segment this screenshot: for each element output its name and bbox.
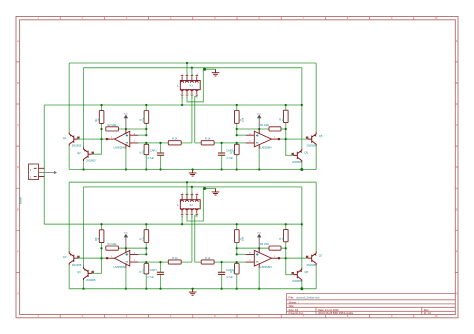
junction V-/bottom R (block 2) bbox=[258, 288, 260, 290]
svg-text:R8 100k: R8 100k bbox=[260, 243, 270, 246]
svg-text:100: 100 bbox=[232, 150, 236, 155]
wire Q1 collector down (block 1) bbox=[68, 146, 70, 170]
junction Rcol/feedback (block 2) bbox=[285, 247, 287, 249]
relay K1 body bbox=[180, 81, 200, 90]
svg-text:G: G bbox=[17, 292, 19, 296]
wire -in to mid (block 2) bbox=[138, 261, 146, 263]
wire feedback to divider (block 2) bbox=[118, 247, 146, 249]
wire relay pin to ground net (block 2) bbox=[187, 189, 203, 222]
junction V+ pin/feedback R (block 1) bbox=[258, 128, 260, 130]
wire -in node to Rb (block 1) bbox=[145, 143, 147, 144]
svg-text:5: 5 bbox=[196, 97, 197, 99]
wire Q2 collector down (block 1) bbox=[83, 161, 85, 170]
wire W1 top (block 2) bbox=[69, 181, 316, 183]
wire mid right (block 2) bbox=[195, 261, 237, 263]
wire W2 to relay pin (block 2) bbox=[191, 187, 193, 196]
junction C4/mid (block 2) bbox=[221, 261, 223, 263]
svg-text:2: 2 bbox=[134, 141, 136, 143]
svg-text:4: 4 bbox=[196, 74, 197, 76]
ground symbol mid (block 1) bbox=[189, 170, 197, 177]
transistor QC3 (block 2) bbox=[308, 251, 316, 265]
svg-text:LM358N: LM358N bbox=[260, 265, 271, 269]
connector J1 bbox=[29, 164, 39, 180]
svg-text:Sheet:: Sheet: bbox=[289, 300, 298, 304]
junction C2/bottom (block 1) bbox=[221, 168, 223, 170]
op-amp U1A (block 1) bbox=[115, 131, 130, 147]
resistor right col (block 2) bbox=[284, 229, 289, 241]
svg-text:5: 5 bbox=[196, 217, 197, 219]
wire W1 to relay pin (block 1) bbox=[186, 63, 188, 76]
svg-text:1: 1 bbox=[111, 256, 113, 258]
wire R3a down to Q base (block 2) bbox=[92, 243, 102, 274]
op-amp U1B (block 1) bbox=[254, 131, 271, 147]
svg-text:10k: 10k bbox=[141, 236, 145, 241]
wire feedback right b (block 1) bbox=[281, 128, 286, 130]
wire Rcol down to QC2 base (block 1) bbox=[286, 123, 294, 156]
wire mid right (block 1) bbox=[195, 142, 237, 144]
wire Rb to bottom (block 2) bbox=[145, 274, 147, 289]
svg-text:VCC: VCC bbox=[124, 113, 129, 115]
junction W1/relay (block 2) bbox=[186, 181, 188, 183]
svg-text:A: A bbox=[456, 39, 458, 43]
wire R1a down to Q base (block 1) bbox=[92, 123, 102, 154]
svg-text:2N2905: 2N2905 bbox=[72, 144, 82, 148]
svg-text:2N2905: 2N2905 bbox=[307, 144, 317, 148]
op-amp right input pins (block 2) bbox=[246, 254, 255, 262]
svg-text:Q8: Q8 bbox=[304, 270, 308, 274]
wire C2 to bottom (block 1) bbox=[221, 155, 223, 169]
junction Rcol/feedback (block 1) bbox=[285, 128, 287, 130]
transistor Q2 (block 1) bbox=[84, 147, 92, 161]
wire QC1 collector down (block 1) bbox=[315, 146, 317, 170]
wire block bottom rail (block 1) bbox=[69, 169, 316, 171]
svg-text:10: 10 bbox=[434, 16, 438, 20]
junction Rcol/output (block 2) bbox=[285, 257, 287, 259]
wire C1 to bottom (block 1) bbox=[160, 155, 162, 169]
svg-text:10k: 10k bbox=[241, 117, 245, 122]
op-amp output pin right (block 1) bbox=[272, 138, 281, 140]
svg-text:K1: K1 bbox=[190, 84, 194, 88]
svg-text:1: 1 bbox=[111, 137, 113, 139]
svg-text:Q2: Q2 bbox=[77, 151, 81, 155]
wire relay pin to mid wire A (block 1) bbox=[191, 95, 193, 143]
junction col/feedback (block 2) bbox=[100, 247, 102, 249]
svg-text:10k: 10k bbox=[141, 117, 145, 122]
wire output to Q3 base (block 2) bbox=[78, 257, 106, 259]
junction V+ pin/feedback (block 2) bbox=[125, 247, 127, 249]
junction col/output (block 2) bbox=[100, 257, 102, 259]
wire rail to divider R (block 2) bbox=[236, 224, 238, 230]
svg-text:Q5: Q5 bbox=[319, 134, 323, 138]
power port VCC right (block 2) bbox=[258, 235, 261, 249]
junction C1/bottom (block 1) bbox=[159, 168, 161, 170]
svg-text:R 1k: R 1k bbox=[205, 137, 211, 141]
junction V-/bottom (block 2) bbox=[125, 288, 127, 290]
junction divider/feedback (block 1) bbox=[145, 128, 147, 130]
junction rail/Rcol (block 1) bbox=[285, 104, 287, 106]
junction C3/bottom (block 2) bbox=[159, 288, 161, 290]
svg-text:100: 100 bbox=[141, 150, 145, 155]
wire W2 right drop through rail (block 2) bbox=[301, 187, 303, 268]
junction V+ pin/feedback (block 1) bbox=[125, 128, 127, 130]
ground symbol near relay (block 1) bbox=[212, 69, 220, 76]
relay K2 body bbox=[180, 200, 200, 209]
junction QC2/bottom (block 1) bbox=[300, 168, 303, 171]
resistor divider top right (block 2) bbox=[235, 230, 240, 243]
svg-text:Q3: Q3 bbox=[63, 255, 67, 259]
series resistor right (block 2) bbox=[201, 260, 214, 264]
capacitor C2 (block 1) bbox=[218, 153, 225, 155]
feedback resistor bbox=[269, 127, 281, 131]
junction -in/mid R (block 2) bbox=[236, 261, 238, 263]
series resistor right (block 1) bbox=[201, 141, 214, 145]
transistor Q1 (block 1) bbox=[69, 132, 77, 146]
wire Q4 collector down (block 2) bbox=[83, 280, 85, 289]
ground symbol near relay (block 2) bbox=[212, 189, 220, 196]
svg-text:R6 100k: R6 100k bbox=[108, 243, 118, 246]
op-amp U1C (block 2) bbox=[115, 250, 130, 266]
wire QC2 collector down (block 1) bbox=[301, 162, 303, 169]
junction rail/Rcol (block 2) bbox=[285, 223, 287, 225]
junction Q4/bottom (block 2) bbox=[82, 288, 84, 290]
wire output to QC base (block 1) bbox=[280, 138, 308, 140]
wire to ground symbol (block 2) bbox=[203, 188, 215, 190]
relay K2 coil bumps bbox=[181, 200, 199, 209]
wire feedback right a (block 2) bbox=[237, 247, 269, 249]
junction rail/W2 (block 1) bbox=[301, 104, 303, 106]
resistor divider top left (block 1) bbox=[144, 111, 149, 124]
wire -in to mid R (block 2) bbox=[237, 261, 246, 263]
wire Q3 collector down (block 2) bbox=[68, 265, 70, 289]
wire -in node to Rb R (block 2) bbox=[236, 262, 238, 263]
junction rail/divider R (block 1) bbox=[236, 104, 238, 106]
junction divider/feedback R (block 1) bbox=[236, 128, 238, 130]
wire mid to C1 (block 1) bbox=[160, 143, 162, 153]
svg-text:VCC: VCC bbox=[124, 233, 129, 235]
wire Rcol down to QC2 base (block 2) bbox=[286, 242, 294, 275]
wire divider mid (block 2) bbox=[145, 243, 147, 255]
resistor divider bottom right (block 1) bbox=[235, 144, 240, 154]
svg-text:B: B bbox=[17, 81, 19, 85]
svg-text:C: C bbox=[17, 123, 19, 127]
wire Rb to bottom R (block 2) bbox=[236, 274, 238, 289]
wire W1 to relay pin (block 2) bbox=[186, 182, 188, 195]
junction rail/W2 (block 2) bbox=[301, 223, 303, 225]
feedback resistor bbox=[106, 127, 119, 131]
capacitor C4 (block 2) bbox=[218, 272, 225, 274]
junction Q2/bottom (block 1) bbox=[82, 168, 84, 170]
wire rail to R1a (block 1) bbox=[101, 105, 103, 111]
svg-text:2: 2 bbox=[249, 260, 251, 262]
svg-text:4.7uF: 4.7uF bbox=[226, 156, 233, 160]
junction V+ pin/feedback R (block 2) bbox=[258, 247, 260, 249]
wire V+ left vertical bbox=[43, 105, 45, 224]
svg-text:F: F bbox=[456, 249, 458, 253]
junction col/output (block 1) bbox=[100, 138, 102, 140]
series resistor left (block 1) bbox=[168, 141, 181, 145]
svg-text:2N2905: 2N2905 bbox=[86, 159, 96, 163]
wire -in to mid (block 1) bbox=[138, 142, 146, 144]
junction divider/feedback (block 2) bbox=[145, 247, 147, 249]
wire W2 top (block 1) bbox=[84, 67, 302, 69]
wire block bottom rail (block 2) bbox=[69, 288, 316, 290]
wire W1 right drop to QC (block 2) bbox=[315, 182, 317, 251]
svg-text:Id: 1/1: Id: 1/1 bbox=[424, 311, 432, 315]
svg-text:4.7uF: 4.7uF bbox=[147, 275, 154, 279]
wire rail to R3a (block 2) bbox=[101, 224, 103, 230]
wire V- to bottom rail (block 2) bbox=[125, 268, 127, 289]
junction Rb/bottom (block 1) bbox=[145, 168, 147, 170]
wire to ground symbol (block 1) bbox=[203, 68, 215, 70]
svg-text:L: L bbox=[177, 84, 179, 88]
svg-text:R 1k: R 1k bbox=[172, 256, 178, 260]
junction C2/mid (block 1) bbox=[221, 142, 223, 144]
capacitor C3 (block 2) bbox=[157, 272, 164, 274]
svg-text:R 1k: R 1k bbox=[205, 256, 211, 260]
op-amp left input pins (block 2) bbox=[130, 254, 139, 262]
wire Rb to bottom R (block 1) bbox=[236, 155, 238, 170]
svg-text:2N2905: 2N2905 bbox=[86, 278, 96, 282]
wire W1 left drop to Q3 (block 2) bbox=[68, 182, 70, 251]
wire W1 right drop to QC (block 1) bbox=[315, 63, 317, 132]
wire relay pin to rail (block 2) bbox=[181, 214, 183, 224]
svg-text:2N2905: 2N2905 bbox=[292, 279, 302, 283]
wire output to QC base (block 2) bbox=[280, 257, 308, 259]
wire W2 right drop through rail (block 1) bbox=[301, 68, 303, 149]
relay K1 coil bumps bbox=[181, 81, 199, 90]
svg-text:E: E bbox=[456, 207, 458, 211]
wire QC4 collector down (block 2) bbox=[301, 281, 303, 288]
resistor divider bottom left (block 1) bbox=[144, 144, 149, 154]
wire relay pin to rail (block 1) bbox=[181, 95, 183, 105]
wire mid left (block 1) bbox=[146, 142, 192, 144]
wire W1 top (block 1) bbox=[69, 62, 316, 64]
power port VCC left (block 2) bbox=[124, 235, 127, 249]
svg-text:D: D bbox=[456, 165, 458, 169]
junction ground net (block 1) bbox=[203, 68, 206, 71]
svg-text:File:: File: bbox=[289, 296, 295, 300]
wire W2 left drop to Q4 (block 2) bbox=[83, 187, 85, 267]
wire rail to Rcol (block 1) bbox=[285, 105, 287, 110]
connector J1 pins bbox=[39, 168, 45, 176]
svg-text:limiter: limiter bbox=[19, 197, 23, 204]
svg-text:2N2905: 2N2905 bbox=[307, 263, 317, 267]
wire mid to C4 (block 2) bbox=[221, 262, 223, 272]
svg-text:C: C bbox=[456, 123, 458, 127]
svg-text:E: E bbox=[17, 207, 19, 211]
svg-text:A: A bbox=[17, 39, 19, 43]
op-amp output pin left (block 2) bbox=[106, 257, 115, 259]
wire -in to mid R (block 1) bbox=[237, 142, 246, 144]
svg-text:R 1k: R 1k bbox=[172, 137, 178, 141]
junction -in/mid R (block 1) bbox=[236, 142, 238, 144]
wire mid to C3 (block 2) bbox=[160, 262, 162, 272]
wire W1 left drop to Q1 (block 1) bbox=[68, 63, 70, 132]
resistor right col (block 1) bbox=[284, 110, 289, 122]
wire relay pin to mid wire A (block 2) bbox=[191, 214, 193, 262]
feedback resistor bbox=[106, 246, 119, 250]
capacitor C1 (block 1) bbox=[157, 153, 164, 155]
svg-text:4.7uF: 4.7uF bbox=[226, 275, 233, 279]
junction C4/bottom (block 2) bbox=[221, 288, 223, 290]
svg-text:4: 4 bbox=[196, 193, 197, 195]
junction rail/divider (block 1) bbox=[145, 104, 147, 106]
wire V+ rail (block 1) bbox=[44, 104, 302, 106]
resistor divider bottom right (block 2) bbox=[235, 264, 240, 274]
svg-text:CAP3: CAP3 bbox=[150, 268, 158, 272]
wire rail to divider R (block 1) bbox=[236, 105, 238, 111]
wire divider mid R (block 2) bbox=[236, 243, 238, 255]
wire feedback right b (block 2) bbox=[281, 247, 286, 249]
svg-text:2: 2 bbox=[134, 260, 136, 262]
svg-text:R4 100k: R4 100k bbox=[260, 124, 270, 127]
junction Rb/bottom R (block 2) bbox=[236, 288, 238, 290]
svg-text:Q7: Q7 bbox=[319, 253, 323, 257]
wire divider mid (block 1) bbox=[145, 123, 147, 135]
junction W2/relay (block 1) bbox=[191, 67, 193, 69]
svg-text:F: F bbox=[17, 249, 19, 253]
power port VCC right (block 1) bbox=[258, 115, 261, 129]
wire -in node to Rb (block 2) bbox=[145, 262, 147, 263]
junction C3/mid (block 2) bbox=[159, 261, 161, 263]
junction C1/mid (block 1) bbox=[159, 142, 161, 144]
junction QC4/bottom (block 2) bbox=[300, 287, 303, 290]
wire W2 to relay pin (block 1) bbox=[191, 68, 193, 77]
op-amp U1D (block 2) bbox=[254, 250, 271, 266]
svg-text:KiCad E.D.A.: KiCad E.D.A. bbox=[289, 311, 305, 315]
junction col/feedback (block 1) bbox=[100, 128, 102, 130]
series resistor left (block 2) bbox=[168, 260, 181, 264]
svg-text:2N2905: 2N2905 bbox=[72, 263, 82, 267]
junction W2/relay (block 2) bbox=[191, 186, 193, 188]
feedback resistor bbox=[269, 246, 281, 250]
relay K2 pins bbox=[181, 195, 198, 215]
junction V-/bottom R (block 1) bbox=[258, 168, 260, 170]
svg-text:100: 100 bbox=[141, 269, 145, 274]
svg-text:100: 100 bbox=[232, 269, 236, 274]
wire feedback to divider (block 1) bbox=[118, 128, 146, 130]
junction rail/R3a (block 2) bbox=[100, 223, 102, 225]
svg-text:10: 10 bbox=[434, 314, 438, 318]
wire output to Q1 base (block 1) bbox=[78, 138, 106, 140]
relay K1 pins bbox=[181, 76, 198, 96]
resistor R3a (block 2) bbox=[99, 230, 104, 243]
wire QC3 collector down (block 2) bbox=[315, 265, 317, 289]
svg-text:Q6: Q6 bbox=[304, 151, 308, 155]
junction -in/mid wire (block 1) bbox=[145, 142, 147, 144]
junction divider tap (block 1) bbox=[145, 134, 147, 136]
svg-text:2N2905: 2N2905 bbox=[292, 160, 302, 164]
ground symbol mid (block 2) bbox=[189, 289, 197, 296]
svg-text:Q1: Q1 bbox=[63, 136, 67, 140]
wire V- to bottom rail R (block 1) bbox=[258, 149, 260, 170]
svg-text:R2 100k: R2 100k bbox=[108, 124, 118, 127]
junction divider tap R (block 2) bbox=[236, 253, 238, 255]
transistor Q4 (block 2) bbox=[84, 267, 92, 281]
wire mid to C2 (block 1) bbox=[221, 143, 223, 153]
wire rail to divider (block 2) bbox=[145, 224, 147, 230]
svg-text:current_limiter.sch: current_limiter.sch bbox=[296, 296, 320, 300]
wire -in node to Rb R (block 1) bbox=[236, 143, 238, 144]
wire relay pin to ground net (block 1) bbox=[187, 69, 203, 102]
junction Rb/bottom R (block 1) bbox=[236, 168, 238, 170]
op-amp output pin left (block 1) bbox=[106, 138, 115, 140]
junction Rcol/output (block 1) bbox=[285, 138, 287, 140]
svg-text:1: 1 bbox=[274, 256, 276, 258]
wire relay pin to mid wire B (block 1) bbox=[195, 95, 197, 143]
resistor R1a (block 1) bbox=[99, 111, 104, 124]
wire rail to divider (block 1) bbox=[145, 105, 147, 111]
power port VCC left (block 1) bbox=[124, 115, 127, 129]
resistor divider top left (block 2) bbox=[144, 230, 149, 243]
transistor QC4 (block 2) bbox=[294, 268, 302, 282]
junction ground net (block 2) bbox=[203, 187, 206, 190]
junction rail/R1a (block 1) bbox=[100, 104, 102, 106]
svg-text:L: L bbox=[177, 203, 179, 207]
wire +in to divider R (block 1) bbox=[237, 134, 246, 136]
svg-text:CAP1: CAP1 bbox=[150, 149, 158, 153]
junction divider tap (block 2) bbox=[145, 253, 147, 255]
transistor Q3 (block 2) bbox=[69, 251, 77, 265]
svg-text:LM358N: LM358N bbox=[260, 146, 271, 150]
wire +in to divider (block 2) bbox=[138, 253, 146, 255]
svg-text:D: D bbox=[17, 165, 19, 169]
svg-text:2: 2 bbox=[249, 141, 251, 143]
svg-text:4.7uF: 4.7uF bbox=[147, 156, 154, 160]
junction relay/rail (block 1) bbox=[181, 104, 183, 106]
svg-text:1: 1 bbox=[274, 137, 276, 139]
transistor QC2 (block 1) bbox=[294, 149, 302, 163]
junction relay/rail (block 2) bbox=[181, 223, 183, 225]
wire divider mid R (block 1) bbox=[236, 123, 238, 135]
junction rail/divider R (block 2) bbox=[236, 223, 238, 225]
svg-text:K2: K2 bbox=[190, 203, 194, 207]
svg-text:G: G bbox=[456, 292, 458, 296]
wire Rb to bottom (block 1) bbox=[145, 155, 147, 170]
svg-text:1: 1 bbox=[182, 193, 183, 195]
svg-text:10k: 10k bbox=[241, 236, 245, 241]
svg-text:VCC: VCC bbox=[257, 113, 262, 115]
junction divider tap R (block 1) bbox=[236, 134, 238, 136]
wire mid left (block 2) bbox=[146, 261, 192, 263]
svg-text:B: B bbox=[456, 81, 458, 85]
svg-text:LM358N: LM358N bbox=[114, 265, 125, 269]
junction V-/bottom (block 1) bbox=[125, 168, 127, 170]
svg-text:VCC: VCC bbox=[257, 233, 262, 235]
wire V+ rail (block 2) bbox=[44, 223, 302, 225]
svg-text:(2010-08-28 BZR 2684)-stable: (2010-08-28 BZR 2684)-stable bbox=[318, 311, 354, 315]
wire V- to bottom rail (block 1) bbox=[125, 149, 127, 170]
wire C3 to bottom (block 2) bbox=[160, 274, 162, 288]
wire rail to Rcol (block 2) bbox=[285, 224, 287, 229]
resistor divider top right (block 1) bbox=[235, 111, 240, 124]
wire +in to divider R (block 2) bbox=[237, 253, 246, 255]
wire C4 to bottom (block 2) bbox=[221, 274, 223, 288]
wire relay pin to mid wire B (block 2) bbox=[195, 214, 197, 262]
svg-text:Q4: Q4 bbox=[77, 270, 81, 274]
transistor QC1 (block 1) bbox=[308, 132, 316, 146]
op-amp output pin right (block 2) bbox=[272, 257, 281, 259]
svg-text:1: 1 bbox=[182, 74, 183, 76]
junction -in/mid wire (block 2) bbox=[145, 261, 147, 263]
wire feedback right a (block 1) bbox=[237, 128, 269, 130]
junction W1/relay (block 1) bbox=[186, 62, 188, 64]
label arrow at J1 bbox=[39, 172, 55, 174]
op-amp left input pins (block 1) bbox=[130, 135, 139, 143]
wire W2 top (block 2) bbox=[84, 186, 302, 188]
junction rail/divider (block 2) bbox=[145, 223, 147, 225]
junction Rb/bottom (block 2) bbox=[145, 288, 147, 290]
